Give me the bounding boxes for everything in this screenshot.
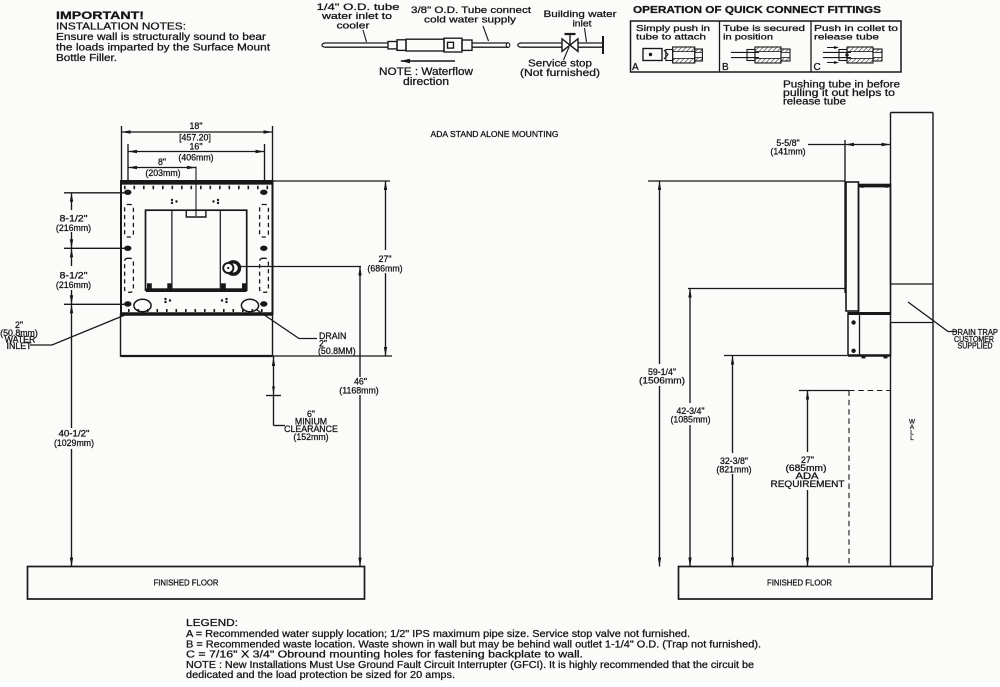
svg-text:B: B (722, 62, 729, 73)
svg-text:C = 7/16" X 3/4" Obround mount: C = 7/16" X 3/4" Obround mounting holes … (186, 650, 583, 661)
svg-text:in position: in position (723, 32, 773, 42)
svg-text:REQUIREMENT: REQUIREMENT (771, 479, 846, 489)
svg-text:Ensure wall is structurally so: Ensure wall is structurally sound to bea… (56, 32, 267, 43)
svg-text:A: A (632, 62, 639, 73)
svg-text:16": 16" (190, 142, 203, 152)
svg-text:(152mm): (152mm) (293, 432, 328, 442)
svg-text:cooler: cooler (337, 21, 370, 32)
svg-text:(1506mm): (1506mm) (639, 376, 685, 386)
svg-text:INLET: INLET (7, 341, 33, 351)
svg-text:C: C (814, 62, 821, 73)
svg-text:(686mm): (686mm) (367, 264, 402, 274)
svg-text:8-1/2": 8-1/2" (60, 214, 88, 224)
svg-text:ADA STAND ALONE MOUNTING: ADA STAND ALONE MOUNTING (431, 129, 559, 139)
svg-text:(1168mm): (1168mm) (339, 386, 379, 396)
svg-text:FINISHED FLOOR: FINISHED FLOOR (767, 577, 832, 587)
svg-text:dedicated and the load protect: dedicated and the load protection be siz… (186, 670, 455, 681)
svg-text:FINISHED FLOOR: FINISHED FLOOR (154, 577, 219, 587)
svg-text:OPERATION OF QUICK CONNECT FIT: OPERATION OF QUICK CONNECT FITTINGS (633, 5, 881, 16)
svg-text:(Not furnished): (Not furnished) (520, 67, 600, 79)
svg-text:L: L (910, 435, 914, 442)
svg-text:(50.8MM): (50.8MM) (318, 346, 356, 356)
svg-text:(216mm): (216mm) (56, 223, 91, 233)
svg-text:A = Recommended water supply l: A = Recommended water supply location; 1… (186, 629, 690, 640)
svg-text:18": 18" (190, 121, 203, 131)
svg-text:27": 27" (379, 254, 392, 264)
svg-text:release tube: release tube (814, 32, 879, 42)
svg-text:(821mm): (821mm) (716, 465, 751, 475)
svg-text:(141mm): (141mm) (770, 147, 805, 157)
svg-text:the loads imparted by the Surf: the loads imparted by the Surface Mount (56, 43, 270, 54)
svg-text:cold water supply: cold water supply (424, 15, 516, 26)
svg-text:40-1/2": 40-1/2" (59, 429, 90, 439)
svg-text:INSTALLATION NOTES:: INSTALLATION NOTES: (56, 22, 186, 33)
svg-text:IMPORTANT!: IMPORTANT! (56, 10, 144, 22)
svg-text:(1085mm): (1085mm) (670, 415, 710, 425)
svg-text:direction: direction (403, 76, 449, 88)
svg-text:(1029mm): (1029mm) (54, 438, 94, 448)
svg-text:LEGEND:: LEGEND: (186, 618, 238, 629)
svg-text:inlet: inlet (573, 19, 592, 30)
svg-text:SUPPLIED: SUPPLIED (958, 342, 993, 351)
svg-text:release tube: release tube (783, 97, 847, 108)
svg-text:8-1/2": 8-1/2" (60, 271, 88, 281)
svg-text:(203mm): (203mm) (145, 168, 180, 178)
svg-text:Bottle Filler.: Bottle Filler. (56, 53, 117, 64)
svg-text:(406mm): (406mm) (178, 153, 213, 163)
svg-text:8": 8" (158, 157, 166, 167)
svg-text:tube to attach: tube to attach (636, 32, 706, 42)
svg-text:(216mm): (216mm) (56, 280, 91, 290)
